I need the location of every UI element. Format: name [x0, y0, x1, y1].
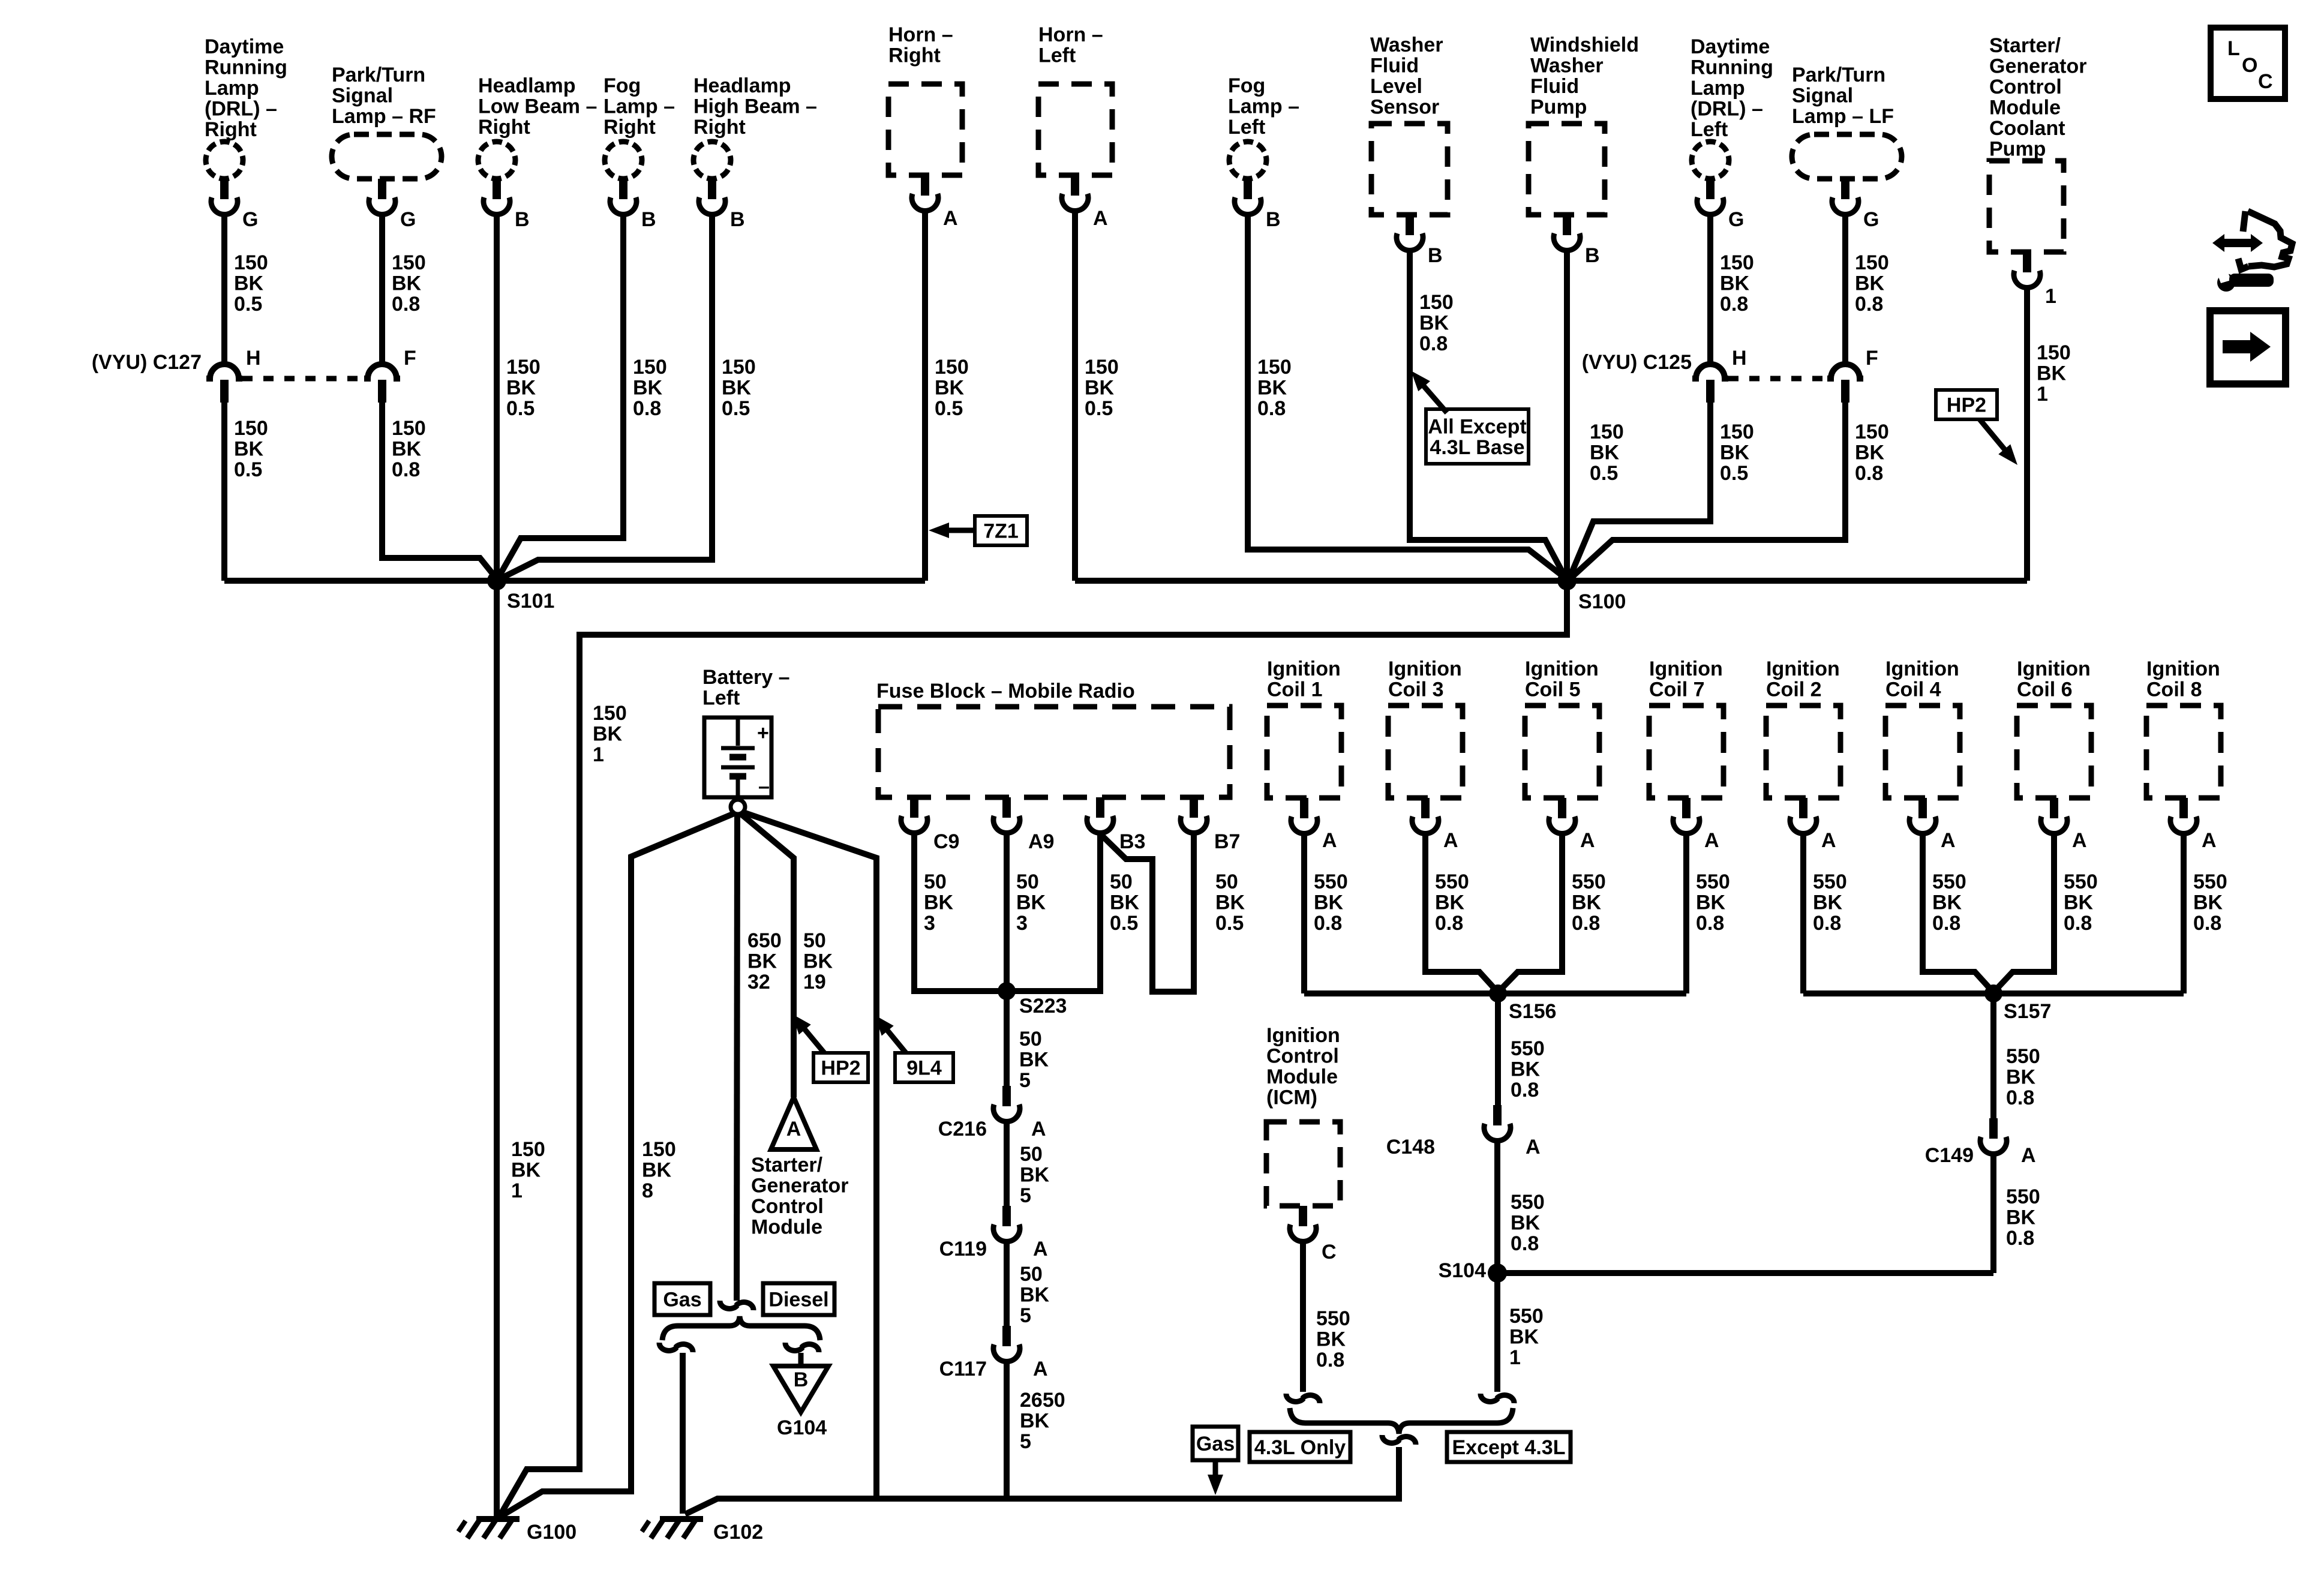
wire battery to gas/diesel split, label 650 BK 32 [737, 814, 782, 1301]
svg-text:H: H [1732, 347, 1747, 370]
svg-text:Starter/: Starter/ [751, 1154, 823, 1176]
svg-text:Fuse Block – Mobile Radio: Fuse Block – Mobile Radio [876, 680, 1135, 703]
svg-text:0.8: 0.8 [2006, 1086, 2034, 1109]
wire C127-F to S101, label 150 BK 0.8 [382, 403, 497, 580]
lamp: Park/Turn Signal Lamp - RF [332, 64, 442, 179]
wire C117 to bottom rail, label 2650 BK 5 [1007, 1362, 1065, 1499]
callout HP2 with arrow to coolant pump wire [1936, 390, 2017, 465]
wire S104 to except-4.3L break, label 550 BK 1 [1497, 1273, 1544, 1392]
svg-text:HP2: HP2 [1947, 394, 1986, 417]
svg-text:BK: BK [803, 950, 833, 973]
svg-text:A: A [1033, 1238, 1048, 1260]
svg-text:A: A [786, 1118, 801, 1140]
svg-text:BK: BK [1511, 1058, 1541, 1081]
lamp: Daytime Running Lamp (DRL) - Left [1691, 35, 1773, 179]
svg-text:Right: Right [478, 116, 530, 139]
svg-text:Starter/: Starter/ [1989, 34, 2061, 57]
pin A9 of fuse block [993, 797, 1054, 853]
pin B7 of fuse block [1181, 797, 1240, 853]
lamp: Park/Turn Signal Lamp - LF [1792, 64, 1902, 179]
svg-text:H: H [246, 347, 261, 370]
svg-text:Coil 3: Coil 3 [1388, 679, 1444, 701]
svg-text:BK: BK [392, 438, 422, 461]
svg-text:G: G [242, 208, 258, 231]
svg-text:BK: BK [1855, 272, 1885, 295]
svg-text:Ignition: Ignition [1766, 658, 1840, 680]
wire S223 to C216, label 50 BK 5 [1007, 991, 1049, 1092]
wire C125-H to S100, label 150 BK 0.5 [1569, 403, 1754, 578]
svg-text:Coil 8: Coil 8 [2146, 679, 2202, 701]
svg-text:HP2: HP2 [821, 1057, 860, 1080]
wire battery to bottom rail [741, 812, 876, 1497]
svg-text:C216: C216 [938, 1118, 987, 1140]
icon: boxed right arrow [2210, 311, 2286, 384]
svg-text:(DRL) –: (DRL) – [205, 98, 277, 121]
wire battery to ground G100, label 150 BK 8 [500, 813, 735, 1517]
svg-text:2650: 2650 [1020, 1389, 1065, 1412]
svg-text:S101: S101 [507, 590, 554, 613]
svg-text:BK: BK [1085, 377, 1115, 400]
svg-text:50: 50 [1019, 1028, 1042, 1050]
svg-text:Module: Module [1266, 1065, 1338, 1088]
svg-text:Control: Control [1989, 76, 2062, 98]
svg-text:BK: BK [1257, 377, 1287, 400]
connector C127 (VYU) with terminals H and F [92, 347, 416, 403]
wire ignition coil 1 to S156, label 550 BK 0.8 [1304, 834, 1348, 993]
break at diesel branch [785, 1343, 819, 1352]
svg-text:150: 150 [1720, 421, 1754, 443]
svg-text:0.5: 0.5 [1590, 462, 1618, 485]
svg-text:150: 150 [506, 356, 541, 379]
svg-text:550: 550 [1316, 1307, 1350, 1330]
svg-text:BK: BK [633, 377, 663, 400]
pin A of coil8 ignition coil [2170, 798, 2217, 852]
junction S101 [487, 571, 554, 613]
svg-text:0.8: 0.8 [392, 293, 420, 316]
svg-text:G: G [1863, 208, 1879, 231]
svg-text:G100: G100 [527, 1521, 577, 1544]
break at end of 4.3L-only wire [1286, 1394, 1320, 1403]
callout All Except 4.3L Base with arrow to sensor wire [1411, 371, 1529, 464]
svg-text:BK: BK [234, 438, 264, 461]
svg-text:Coil 7: Coil 7 [1649, 679, 1705, 701]
svg-text:Ignition: Ignition [1649, 658, 1723, 680]
wire horn right to S101 bus, label 150 BK 0.5 [925, 212, 969, 581]
svg-text:(VYU) C125: (VYU) C125 [1582, 351, 1692, 374]
svg-text:1: 1 [2045, 285, 2056, 308]
svg-text:BK: BK [392, 272, 422, 295]
lamp: Fog Lamp - Left [1228, 74, 1299, 179]
svg-text:C9: C9 [933, 830, 959, 853]
svg-text:3: 3 [1016, 912, 1028, 935]
svg-text:4.3L Only: 4.3L Only [1254, 1436, 1346, 1459]
svg-text:BK: BK [747, 950, 777, 973]
wire ignition coil 4 to S157, label 550 BK 0.8 [1923, 834, 1992, 991]
svg-text:Left: Left [702, 687, 740, 710]
wire ignition coil 5 to S156, label 550 BK 0.8 [1499, 834, 1606, 991]
svg-text:BK: BK [1696, 891, 1726, 914]
callout 7Z1 with arrow to horn-right wire [929, 516, 1027, 545]
svg-text:Ignition: Ignition [1525, 658, 1599, 680]
wire gas branch to ground G102 [680, 1353, 686, 1514]
wire headlamp high beam to S101, label 150 BK 0.5 [499, 215, 756, 580]
connector C149 terminal A [1925, 1118, 2036, 1167]
pin G of Park/Turn RF [369, 179, 416, 231]
svg-text:Level: Level [1370, 75, 1422, 98]
svg-text:BK: BK [1720, 442, 1750, 464]
svg-text:BK: BK [1016, 891, 1046, 914]
svg-text:G: G [1728, 208, 1744, 231]
svg-text:50: 50 [1215, 870, 1238, 893]
svg-text:Daytime: Daytime [1691, 35, 1770, 58]
component: Ignition Control Module (ICM) [1266, 1024, 1340, 1206]
svg-text:BK: BK [1855, 442, 1885, 464]
wire fuse C9 to S223, label 50 BK 3 [914, 834, 998, 991]
svg-text:BK: BK [1813, 891, 1843, 914]
component: Washer Fluid Level Sensor [1370, 34, 1448, 215]
svg-text:B: B [1428, 244, 1443, 267]
svg-text:0.8: 0.8 [1855, 462, 1883, 485]
svg-text:Fog: Fog [1228, 74, 1265, 97]
svg-text:1: 1 [511, 1179, 523, 1202]
svg-text:BK: BK [642, 1159, 672, 1182]
break above bottom rail at brace [1382, 1435, 1416, 1445]
svg-text:550: 550 [1813, 870, 1847, 893]
svg-text:Pump: Pump [1989, 138, 2046, 161]
component: Ignition Coil 1 [1267, 658, 1341, 798]
svg-text:BK: BK [1314, 891, 1344, 914]
pin B of fog lamp left [1235, 179, 1281, 231]
svg-text:4.3L Base: 4.3L Base [1430, 436, 1524, 459]
svg-text:Washer: Washer [1530, 55, 1604, 77]
svg-text:Park/Turn: Park/Turn [1792, 64, 1885, 86]
svg-text:0.8: 0.8 [1314, 912, 1342, 935]
svg-text:Coil 5: Coil 5 [1525, 679, 1581, 701]
pin C of ICM [1290, 1206, 1337, 1263]
brace joining 4.3L-only and except-4.3L branches [1290, 1408, 1513, 1434]
svg-text:Fluid: Fluid [1530, 75, 1579, 98]
wire S157 to C149, label 550 BK 0.8 [1993, 993, 2040, 1118]
svg-text:50: 50 [803, 929, 826, 952]
wire S100 to ground G100, label 150 BK 1 [500, 581, 1567, 1516]
svg-text:–: – [758, 775, 770, 798]
svg-text:150: 150 [1419, 291, 1454, 314]
wire Park/Turn LF to C125-F, label 150 BK 0.8 [1845, 215, 1889, 365]
svg-text:Running: Running [1691, 56, 1773, 79]
svg-text:550: 550 [2006, 1185, 2040, 1208]
wire washer sensor to S100, label 150 BK 0.8 [1410, 251, 1566, 578]
svg-text:A9: A9 [1028, 830, 1054, 853]
svg-text:B: B [730, 208, 745, 231]
svg-text:0.8: 0.8 [1813, 912, 1841, 935]
svg-text:G102: G102 [713, 1521, 763, 1544]
pin C9 of fuse block [901, 797, 959, 853]
svg-text:C: C [2258, 70, 2273, 93]
svg-text:550: 550 [1509, 1305, 1544, 1328]
svg-text:1: 1 [2037, 383, 2048, 406]
svg-text:B: B [1266, 208, 1281, 231]
svg-text:BK: BK [1590, 442, 1620, 464]
svg-text:Generator: Generator [751, 1175, 849, 1197]
svg-text:BK: BK [2037, 362, 2067, 385]
svg-text:0.5: 0.5 [506, 397, 535, 420]
svg-text:550: 550 [2193, 870, 2227, 893]
svg-text:150: 150 [1855, 251, 1889, 274]
svg-text:Left: Left [1228, 116, 1265, 139]
svg-text:550: 550 [2064, 870, 2098, 893]
svg-text:1: 1 [593, 743, 604, 766]
component: Horn - Left [1038, 23, 1112, 175]
svg-text:All Except: All Except [1428, 415, 1526, 438]
wire ignition coil 8 to S157, label 550 BK 0.8 [2184, 834, 2227, 993]
svg-text:Low Beam –: Low Beam – [478, 95, 597, 118]
lamp: Fog Lamp - Right [603, 74, 675, 179]
svg-text:0.8: 0.8 [1435, 912, 1463, 935]
junction S100 [1557, 571, 1626, 613]
svg-text:A: A [1093, 207, 1108, 230]
svg-text:BK: BK [1572, 891, 1602, 914]
svg-text:Left: Left [1691, 118, 1728, 141]
wire ICM to 4.3L-only break, label 550 BK 0.8 [1303, 1242, 1350, 1392]
connector C119 terminal A [939, 1206, 1048, 1260]
svg-text:0.5: 0.5 [1215, 912, 1244, 935]
wire fuse A9 to S223, label 50 BK 3 [1007, 834, 1046, 991]
wire fuse B3 to S223 bus, label 50 BK 0.5 [1015, 834, 1140, 991]
connector C125 (VYU) with terminals H and F [1582, 347, 1878, 403]
svg-text:5: 5 [1020, 1430, 1031, 1453]
wire DRL-R pin G to C127-H, label 150 BK 0.5 [224, 215, 268, 365]
pin A of coil4 ignition coil [1909, 798, 1956, 852]
svg-text:550: 550 [1511, 1037, 1545, 1060]
svg-text:Horn –: Horn – [1038, 23, 1103, 46]
svg-text:Gas: Gas [1196, 1433, 1235, 1455]
svg-text:BK: BK [1020, 1284, 1050, 1307]
svg-text:50: 50 [1110, 870, 1133, 893]
callout box Diesel (engine split) [763, 1283, 834, 1315]
wire C119 to C117, label 50 BK 5 [1007, 1242, 1050, 1327]
wire fuse B7 loop to B3 pin, label 50 BK 0.5 [1101, 834, 1245, 992]
svg-text:650: 650 [747, 929, 782, 952]
svg-text:Park/Turn: Park/Turn [332, 64, 425, 86]
svg-text:Ignition: Ignition [1267, 658, 1341, 680]
power triangle A - Starter/Generator Control Module [751, 1097, 849, 1239]
svg-text:B: B [641, 208, 656, 231]
svg-text:F: F [1866, 347, 1878, 370]
pin A of horn left [1062, 175, 1108, 230]
svg-text:0.8: 0.8 [392, 458, 420, 481]
brace splitting 650 BK 32 into gas/diesel branches [662, 1316, 820, 1340]
svg-text:Fluid: Fluid [1370, 55, 1419, 77]
component: Ignition Coil 5 [1525, 658, 1599, 798]
svg-text:8: 8 [642, 1179, 653, 1202]
svg-text:S100: S100 [1578, 590, 1626, 613]
svg-text:Running: Running [205, 56, 287, 79]
pin G of DRL right [211, 179, 258, 231]
svg-text:Pump: Pump [1530, 96, 1587, 119]
svg-text:Coolant: Coolant [1989, 117, 2065, 140]
svg-text:Ignition: Ignition [1388, 658, 1462, 680]
svg-text:Headlamp: Headlamp [478, 74, 576, 97]
svg-text:Gas: Gas [663, 1289, 701, 1311]
ground triangle B G104 [773, 1353, 828, 1439]
svg-text:B: B [794, 1368, 809, 1391]
svg-text:Right: Right [205, 118, 257, 141]
pin B of fog lamp right [610, 179, 656, 231]
svg-text:BK: BK [511, 1159, 541, 1182]
svg-text:Lamp – LF: Lamp – LF [1792, 105, 1894, 128]
svg-text:BK: BK [924, 891, 954, 914]
svg-text:BK: BK [1110, 891, 1140, 914]
svg-text:Washer: Washer [1370, 34, 1443, 56]
svg-text:+: + [757, 722, 769, 745]
svg-text:0.5: 0.5 [1720, 462, 1748, 485]
wire C216 to C119, label 50 BK 5 [1007, 1122, 1050, 1207]
component: Ignition Coil 3 [1388, 658, 1463, 798]
svg-text:G104: G104 [777, 1416, 827, 1439]
component: Windshield Washer Fluid Pump [1529, 34, 1639, 215]
pin A of coil6 ignition coil [2041, 798, 2087, 852]
svg-text:A: A [1821, 829, 1836, 852]
svg-text:0.8: 0.8 [1257, 397, 1286, 420]
battery negative terminal node [731, 800, 745, 814]
svg-text:Ignition: Ignition [2146, 658, 2220, 680]
svg-text:150: 150 [722, 356, 756, 379]
svg-text:0.8: 0.8 [1419, 332, 1448, 355]
svg-text:S157: S157 [2004, 1000, 2051, 1023]
svg-text:0.8: 0.8 [2193, 912, 2221, 935]
callout 9L4 with arrow to battery bottom-rail wire [875, 1015, 953, 1082]
bus wire S101 horizontal [224, 578, 925, 584]
svg-text:Lamp: Lamp [1691, 77, 1745, 100]
svg-text:A: A [1322, 829, 1337, 852]
svg-text:A: A [1580, 829, 1595, 852]
svg-text:0.5: 0.5 [234, 293, 262, 316]
svg-text:A: A [1033, 1358, 1048, 1380]
svg-text:0.8: 0.8 [1932, 912, 1960, 935]
svg-text:BK: BK [2006, 1066, 2036, 1089]
svg-text:A: A [1704, 829, 1719, 852]
svg-text:150: 150 [935, 356, 969, 379]
component: Ignition Coil 7 [1649, 658, 1724, 798]
svg-text:BK: BK [1215, 891, 1245, 914]
svg-text:150: 150 [1085, 356, 1119, 379]
svg-text:Control: Control [1266, 1045, 1339, 1068]
svg-text:150: 150 [392, 417, 426, 440]
wire fog lamp left to S100, label 150 BK 0.8 [1248, 215, 1566, 578]
wire C148 to S104, label 550 BK 0.8 [1497, 1142, 1545, 1273]
svg-text:Signal: Signal [1792, 85, 1853, 107]
wire C125-F to S100, label 150 BK 0.8 [1571, 403, 1889, 578]
wire C149 down to S104 rail, label 550 BK 0.8 [1993, 1155, 2040, 1273]
component: Horn - Right [888, 23, 962, 175]
svg-text:A: A [1526, 1136, 1541, 1158]
svg-text:BK: BK [722, 377, 752, 400]
svg-text:9L4: 9L4 [906, 1057, 942, 1080]
svg-text:C149: C149 [1925, 1144, 1974, 1167]
icon: double arrow with part outline and wrench [2212, 211, 2292, 292]
svg-text:3: 3 [924, 912, 935, 935]
svg-text:550: 550 [1314, 870, 1348, 893]
svg-text:0.5: 0.5 [1085, 397, 1113, 420]
svg-text:BK: BK [1019, 1049, 1049, 1071]
break at end of 650 BK 32 wire [720, 1301, 753, 1310]
pin A of coil2 ignition coil [1790, 798, 1836, 852]
svg-text:50: 50 [1016, 870, 1039, 893]
svg-text:B3: B3 [1119, 830, 1145, 853]
svg-text:0.8: 0.8 [1316, 1349, 1344, 1371]
ground G102 [642, 1519, 763, 1544]
svg-text:Fog: Fog [603, 74, 641, 97]
svg-text:Sensor: Sensor [1370, 96, 1439, 119]
svg-text:150: 150 [1855, 421, 1889, 443]
svg-text:50: 50 [924, 870, 947, 893]
svg-text:150: 150 [234, 417, 268, 440]
component: Ignition Coil 6 [2017, 658, 2091, 798]
svg-text:Battery –: Battery – [702, 666, 790, 689]
svg-text:50: 50 [1020, 1143, 1043, 1166]
svg-text:B: B [1585, 244, 1600, 267]
svg-text:(VYU) C127: (VYU) C127 [92, 351, 202, 374]
svg-text:Windshield: Windshield [1530, 34, 1639, 56]
break at gas branch [659, 1343, 693, 1352]
component: Ignition Coil 8 [2146, 658, 2221, 798]
svg-text:BK: BK [506, 377, 536, 400]
svg-text:0.8: 0.8 [2064, 912, 2092, 935]
battery: Battery - Left [702, 666, 790, 798]
svg-text:C148: C148 [1386, 1136, 1435, 1158]
callout Gas with down arrow to bottom rail [1193, 1427, 1238, 1495]
svg-text:32: 32 [747, 971, 770, 993]
svg-text:Coil 6: Coil 6 [2017, 679, 2073, 701]
svg-text:150: 150 [1257, 356, 1292, 379]
svg-text:5: 5 [1020, 1304, 1031, 1327]
svg-text:19: 19 [803, 971, 826, 993]
svg-text:Signal: Signal [332, 85, 393, 107]
pin B of headlamp low beam right [484, 179, 530, 231]
pin A of horn right [912, 175, 958, 230]
svg-text:550: 550 [1572, 870, 1606, 893]
svg-text:0.8: 0.8 [1696, 912, 1724, 935]
svg-text:150: 150 [1720, 251, 1754, 274]
svg-text:(DRL) –: (DRL) – [1691, 98, 1763, 121]
svg-text:0.5: 0.5 [935, 397, 963, 420]
svg-text:A: A [1941, 829, 1956, 852]
bus wire S157 [1803, 990, 2184, 996]
svg-text:High Beam –: High Beam – [693, 95, 817, 118]
svg-text:A: A [2021, 1144, 2036, 1167]
svg-text:Ignition: Ignition [1885, 658, 1959, 680]
svg-text:550: 550 [1696, 870, 1730, 893]
svg-text:G: G [400, 208, 416, 231]
svg-text:S223: S223 [1019, 995, 1067, 1017]
pin B of washer fluid level sensor [1397, 215, 1443, 267]
svg-text:B: B [515, 208, 530, 231]
junction S157 [1984, 984, 2051, 1023]
svg-text:Coil 4: Coil 4 [1885, 679, 1941, 701]
pin A of coil3 ignition coil [1412, 798, 1458, 852]
wire ignition coil 6 to S157, label 550 BK 0.8 [1995, 834, 2098, 991]
callout box Gas (engine split) [654, 1283, 710, 1315]
wire battery to module triangle A, label 50 BK 19 [740, 813, 833, 1097]
component: Starter/Generator Control Module Coolant Pump [1989, 34, 2087, 252]
svg-text:BK: BK [1509, 1326, 1539, 1349]
svg-text:550: 550 [1435, 870, 1469, 893]
svg-text:BK: BK [2006, 1206, 2036, 1229]
svg-text:1: 1 [1509, 1346, 1521, 1369]
svg-text:Lamp –: Lamp – [603, 95, 675, 118]
pin G of DRL left [1697, 179, 1744, 231]
svg-text:150: 150 [511, 1138, 545, 1161]
